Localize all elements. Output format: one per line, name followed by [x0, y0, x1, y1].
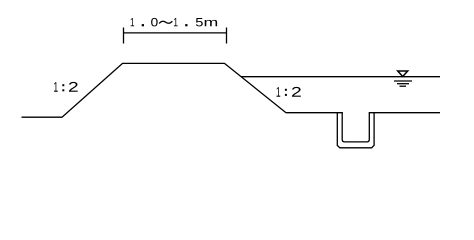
water line	[241, 76, 440, 78]
ground line right of ditch	[369, 112, 440, 114]
left slope label colon	[62, 84, 64, 86]
water level symbol: triangle	[398, 71, 408, 77]
U-ditch inner wall	[342, 113, 369, 142]
title glyph 1 second	[174, 18, 178, 26]
U-ditch outer wall	[337, 113, 374, 148]
water level symbol: under-lines	[394, 80, 412, 82]
title glyph 5	[196, 18, 203, 26]
right slope label glyph 2	[292, 87, 301, 97]
slope label 1:2 right	[277, 87, 301, 97]
dimension tick left	[123, 28, 125, 44]
title fullwidth period 2	[185, 24, 187, 26]
dimension tick right	[226, 28, 228, 44]
title glyph 0	[151, 18, 158, 27]
title fullwidth period 1	[142, 24, 144, 26]
left slope label glyph 2	[69, 82, 78, 92]
slope label 1:2 left	[54, 82, 78, 92]
right slope label glyph 1	[277, 87, 281, 97]
embankment profile: left ground, left slope, crest, right slope, right ground	[22, 63, 343, 117]
dimension line	[124, 32, 227, 34]
dimension label 1.0~1.5m	[131, 18, 217, 27]
left slope label glyph 1	[54, 82, 58, 92]
title wave dash	[159, 21, 172, 23]
right slope label colon	[285, 89, 287, 91]
title glyph m	[205, 20, 217, 26]
title glyph 1	[131, 18, 135, 26]
